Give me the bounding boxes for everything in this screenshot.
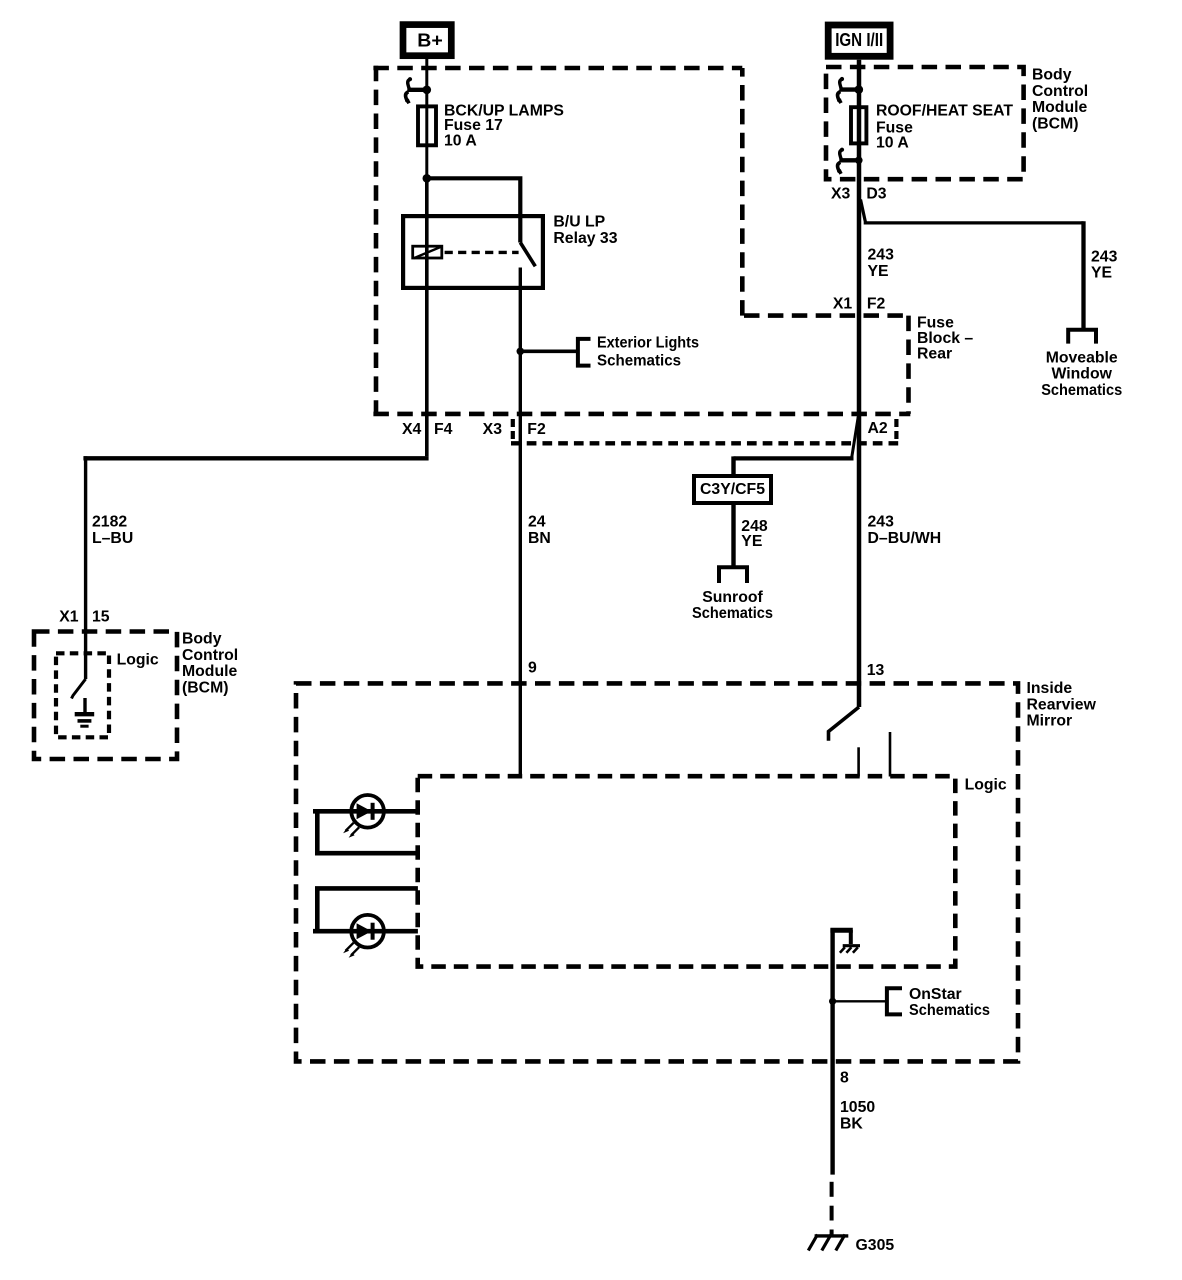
svg-text:24: 24 <box>528 514 546 531</box>
svg-text:B/U LP: B/U LP <box>553 214 605 231</box>
svg-text:1050: 1050 <box>840 1099 875 1116</box>
svg-text:Schematics: Schematics <box>692 605 773 622</box>
svg-text:Body: Body <box>182 631 222 648</box>
svg-text:15: 15 <box>92 609 110 626</box>
svg-text:Schematics: Schematics <box>1041 382 1122 399</box>
svg-text:(BCM): (BCM) <box>1032 116 1079 133</box>
svg-text:ROOF/HEAT SEAT: ROOF/HEAT SEAT <box>876 102 1013 119</box>
svg-text:D–BU/WH: D–BU/WH <box>868 530 942 547</box>
svg-text:243: 243 <box>868 514 895 531</box>
svg-text:Mirror: Mirror <box>1027 713 1073 730</box>
svg-text:13: 13 <box>867 662 885 679</box>
svg-text:Schematics: Schematics <box>597 352 681 369</box>
svg-text:243: 243 <box>1091 248 1118 265</box>
svg-text:B+: B+ <box>417 30 443 50</box>
svg-text:Logic: Logic <box>117 652 159 669</box>
svg-text:Body: Body <box>1032 67 1072 84</box>
svg-text:Module: Module <box>1032 99 1087 116</box>
svg-text:Control: Control <box>182 647 238 664</box>
svg-text:F4: F4 <box>434 421 453 438</box>
svg-text:10 A: 10 A <box>444 132 477 149</box>
svg-text:(BCM): (BCM) <box>182 679 229 696</box>
svg-text:BK: BK <box>840 1116 863 1133</box>
svg-text:YE: YE <box>868 263 889 280</box>
svg-text:BN: BN <box>528 530 551 547</box>
svg-text:Module: Module <box>182 663 237 680</box>
svg-text:Moveable: Moveable <box>1046 350 1118 367</box>
svg-text:Rearview: Rearview <box>1027 696 1097 713</box>
svg-text:X1: X1 <box>833 295 853 312</box>
svg-text:Exterior Lights: Exterior Lights <box>597 335 699 352</box>
svg-text:243: 243 <box>868 247 895 264</box>
svg-text:F2: F2 <box>867 295 886 312</box>
svg-text:9: 9 <box>528 660 537 677</box>
svg-text:8: 8 <box>840 1070 849 1087</box>
svg-text:Window: Window <box>1051 366 1112 383</box>
svg-text:Schematics: Schematics <box>909 1002 990 1019</box>
svg-text:Rear: Rear <box>917 345 952 362</box>
svg-text:Relay 33: Relay 33 <box>553 230 617 247</box>
svg-text:X4: X4 <box>402 421 422 438</box>
svg-text:IGN I/II: IGN I/II <box>835 30 883 50</box>
svg-text:F2: F2 <box>527 421 546 438</box>
svg-text:L–BU: L–BU <box>92 530 133 547</box>
svg-text:C3Y/CF5: C3Y/CF5 <box>700 481 765 498</box>
svg-text:YE: YE <box>1091 264 1112 281</box>
svg-text:X1: X1 <box>59 609 79 626</box>
svg-text:Logic: Logic <box>965 776 1007 793</box>
svg-text:X3: X3 <box>483 421 503 438</box>
svg-text:YE: YE <box>741 533 762 550</box>
svg-text:10 A: 10 A <box>876 135 909 152</box>
svg-text:Control: Control <box>1032 83 1088 100</box>
svg-text:G305: G305 <box>856 1237 895 1254</box>
svg-text:A2: A2 <box>868 420 888 437</box>
svg-text:OnStar: OnStar <box>909 986 962 1003</box>
svg-text:X3: X3 <box>831 185 851 202</box>
svg-text:Inside: Inside <box>1027 680 1073 697</box>
svg-text:2182: 2182 <box>92 514 127 531</box>
svg-text:Sunroof: Sunroof <box>702 589 763 606</box>
svg-text:D3: D3 <box>866 185 886 202</box>
